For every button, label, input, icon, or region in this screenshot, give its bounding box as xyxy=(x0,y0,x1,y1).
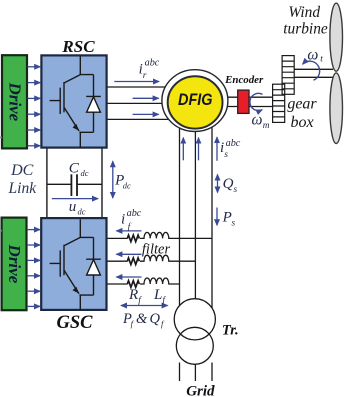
label C_dc xyxy=(69,159,89,178)
svg-text:box: box xyxy=(290,114,313,131)
wind turbine blade upper xyxy=(330,3,343,71)
arrow filter current if phase 2 xyxy=(116,253,141,255)
svg-text:u: u xyxy=(69,199,77,215)
label u_dc xyxy=(69,199,86,216)
svg-text:abc: abc xyxy=(226,138,241,149)
label omega_m xyxy=(252,111,270,131)
svg-text:f: f xyxy=(161,318,165,328)
wire capacitor rail left xyxy=(47,183,72,185)
arrow filter current if phase 3 xyxy=(116,276,141,278)
wire filter phase 3 with resistor and inductor xyxy=(107,278,180,287)
label omega_t xyxy=(307,46,323,64)
svg-text:Link: Link xyxy=(8,180,38,197)
wire stator phase a vertical xyxy=(179,124,181,319)
wire shaft gearbox to turbine lower xyxy=(294,76,333,78)
svg-text:s: s xyxy=(234,185,238,195)
svg-text:s: s xyxy=(224,150,228,160)
converter box GSC xyxy=(41,218,106,310)
wire shaft DFIG to encoder upper xyxy=(220,96,238,98)
label i_s^abc xyxy=(220,138,241,160)
svg-text:ω: ω xyxy=(307,46,318,63)
svg-text:Q: Q xyxy=(223,176,234,192)
clipped control line stub lower xyxy=(0,230,2,232)
arrow rotor current direction phase a xyxy=(114,81,159,83)
svg-text:f: f xyxy=(131,318,135,328)
svg-text:turbine: turbine xyxy=(283,21,328,38)
svg-text:m: m xyxy=(263,121,270,131)
label R_f xyxy=(128,287,142,306)
wire shaft gearbox to turbine upper xyxy=(294,68,333,70)
wire grid stub phase a below transformer xyxy=(179,363,181,382)
label Q_s xyxy=(223,176,238,195)
arrow Pdc bidirectional xyxy=(112,161,114,198)
label P_s xyxy=(222,210,236,229)
svg-text:Drive: Drive xyxy=(6,81,25,121)
wire DC bus right xyxy=(101,148,103,218)
svg-text:DFIG: DFIG xyxy=(178,90,213,109)
svg-text:L: L xyxy=(153,287,162,303)
svg-text:Q: Q xyxy=(150,311,161,327)
wire shaft encoder to gearbox upper xyxy=(249,96,273,98)
svg-text:Drive: Drive xyxy=(5,244,24,284)
svg-text:abc: abc xyxy=(145,58,160,69)
svg-text:R: R xyxy=(128,287,138,303)
svg-text:Tr.: Tr. xyxy=(222,323,239,339)
arrow rotor current direction phase b xyxy=(133,97,159,99)
arrow stator current is phase c xyxy=(216,137,218,161)
svg-text:RSC: RSC xyxy=(61,37,95,56)
label i_r^abc xyxy=(139,58,160,82)
svg-text:&: & xyxy=(136,311,148,327)
wire stator phase c vertical xyxy=(211,124,213,319)
wire stator phase b vertical xyxy=(194,124,196,319)
label Pf and Qf xyxy=(122,311,165,329)
drive arrows upper drive to RSC xyxy=(28,67,41,146)
wind turbine blade lower xyxy=(330,73,343,144)
svg-text:f: f xyxy=(162,295,166,306)
wire shaft encoder to gearbox lower xyxy=(249,106,273,108)
transformer Tr. windings xyxy=(174,299,215,365)
encoder box xyxy=(238,90,249,113)
svg-text:filter: filter xyxy=(142,242,171,258)
svg-text:P: P xyxy=(222,210,232,226)
wire filter phase 2 with resistor and inductor xyxy=(107,255,196,264)
arrow stator current is phase a xyxy=(182,138,184,161)
arrow stator current is phase b xyxy=(198,138,200,161)
svg-text:C: C xyxy=(69,159,80,176)
gearbox left ladder xyxy=(273,84,285,122)
svg-text:f: f xyxy=(138,295,142,306)
svg-text:GSC: GSC xyxy=(57,313,94,333)
clipped control line stub upper xyxy=(0,137,2,139)
svg-text:dc: dc xyxy=(78,206,86,216)
IGBT and diode symbol inside RSC xyxy=(50,57,101,148)
label L_f xyxy=(153,287,166,306)
svg-text:t: t xyxy=(320,55,323,65)
svg-text:r: r xyxy=(143,71,147,81)
drive arrows lower drive to GSC xyxy=(27,230,40,307)
wire rotor phase b RSC to DFIG xyxy=(107,102,196,104)
wire rotor phase a RSC to DFIG xyxy=(107,86,196,88)
drive box upper xyxy=(2,55,27,148)
svg-text:Wind: Wind xyxy=(288,4,320,21)
drive box lower xyxy=(2,218,27,311)
IGBT and diode symbol inside GSC xyxy=(50,219,101,309)
wire filter phase 1 with resistor and inductor xyxy=(107,232,213,241)
arrow udc voltage reference xyxy=(52,198,98,200)
svg-text:dc: dc xyxy=(123,181,131,191)
capacitor C_dc plates xyxy=(71,174,77,196)
svg-text:Grid: Grid xyxy=(186,384,215,397)
arrow rotation omega_m xyxy=(250,93,263,110)
arrow filter current if phase 1 xyxy=(116,230,141,232)
arrow Qs bidirectional xyxy=(217,175,219,193)
wire grid stub phase c below transformer xyxy=(211,363,213,382)
wire shaft DFIG to encoder lower xyxy=(220,106,238,108)
svg-text:gear: gear xyxy=(287,95,317,112)
arrow Pf Qf bidirectional xyxy=(121,305,168,307)
gearbox right ladder xyxy=(282,56,294,95)
label P_dc xyxy=(114,173,131,191)
converter box RSC xyxy=(41,55,106,147)
wire grid stub phase b below transformer xyxy=(194,363,196,382)
wire capacitor rail right xyxy=(77,183,102,185)
svg-text:abc: abc xyxy=(127,208,142,219)
wire DC bus left xyxy=(46,148,48,218)
svg-text:dc: dc xyxy=(81,168,89,178)
svg-text:DC: DC xyxy=(10,162,34,179)
wire rotor phase c RSC to DFIG xyxy=(107,118,196,120)
arrow rotation omega_t xyxy=(303,61,320,80)
arrow rotor current direction phase c xyxy=(133,113,159,115)
DFIG generator xyxy=(162,70,228,132)
svg-text:i: i xyxy=(121,212,125,228)
label i_f^abc xyxy=(121,208,142,233)
svg-text:Encoder: Encoder xyxy=(224,74,264,86)
svg-text:s: s xyxy=(232,218,236,228)
svg-text:ω: ω xyxy=(252,111,263,128)
arrow Ps downward xyxy=(216,208,218,226)
